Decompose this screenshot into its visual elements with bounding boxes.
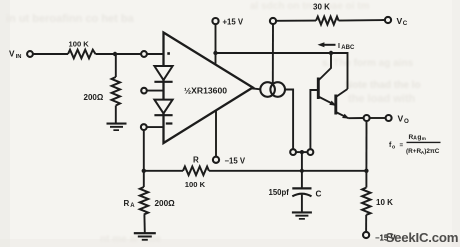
ground G3	[292, 211, 312, 219]
wire cap to ground	[301, 195, 303, 212]
node VIN label	[9, 50, 21, 60]
svg-text:150pf: 150pf	[269, 188, 290, 197]
terminal VIN	[27, 51, 33, 57]
svg-text:C: C	[316, 189, 322, 198]
watermark SeekIC.com	[386, 230, 459, 245]
resistor 10K	[365, 171, 367, 188]
formula fo	[389, 134, 440, 156]
wire op-amp out to mirror	[251, 88, 260, 89]
svg-text:in ut beroafinn co het ba: in ut beroafinn co het ba	[6, 13, 135, 25]
terminal Vo	[386, 115, 392, 121]
svg-text:SeekIC.com: SeekIC.com	[386, 230, 459, 245]
svg-text:IN: IN	[16, 54, 22, 60]
wire IABC pin to R 30K	[276, 20, 316, 22]
svg-text:V: V	[9, 50, 15, 59]
wire 200ohm to ground	[115, 106, 117, 124]
svg-text:s. The form ag ains: s. The form ag ains	[322, 58, 414, 69]
resistor 100K input label	[69, 40, 90, 49]
svg-text:A: A	[130, 203, 135, 209]
node B junction	[142, 169, 146, 173]
wire IABC pin down to mirror	[272, 24, 274, 84]
ground G2	[134, 232, 156, 241]
resistor R label	[185, 155, 206, 189]
minus input mark	[166, 122, 173, 124]
resistor 30K label	[313, 2, 330, 11]
resistor 100K input	[68, 50, 96, 59]
op-amp U1 triangle	[164, 33, 253, 144]
wire RA to ground	[143, 215, 145, 233]
wire diode bias stub	[147, 90, 164, 92]
wire Vo node down to bus	[365, 121, 367, 171]
resistor 200ohm label	[84, 93, 104, 102]
wire +15V down to op-amp V+	[215, 24, 217, 65]
svg-text:I: I	[338, 43, 340, 50]
resistor R 100K feedback	[183, 167, 209, 176]
terminal inverting input	[141, 124, 147, 130]
current IABC arrow	[322, 44, 336, 46]
wire R to node C	[209, 170, 302, 172]
terminal -15V bottom	[363, 232, 369, 238]
svg-text:V: V	[398, 113, 404, 123]
diode D1	[154, 66, 172, 80]
svg-text:100 K: 100 K	[185, 180, 206, 189]
current mirror U1b	[260, 82, 275, 97]
svg-text:(R+R: (R+R	[406, 148, 421, 155]
junction node C bus	[300, 169, 304, 173]
svg-text:the load with: the load with	[348, 93, 416, 105]
capacitor C	[292, 187, 311, 189]
svg-text:ABC: ABC	[341, 45, 355, 51]
wire Q2 emitter to Vo	[348, 117, 363, 119]
svg-text:O: O	[404, 118, 409, 125]
diode D2	[154, 100, 172, 114]
svg-text:C: C	[403, 20, 408, 27]
terminal buffer input pin	[308, 149, 314, 155]
capacitor C label	[269, 188, 322, 198]
terminal +15V	[212, 18, 218, 24]
ground G1	[107, 123, 127, 132]
svg-text:10 K: 10 K	[376, 198, 393, 207]
wire node A down to 200ohm	[115, 54, 117, 77]
junction +15V bus	[213, 51, 217, 55]
svg-text:200Ω: 200Ω	[155, 199, 176, 208]
svg-text:100 K: 100 K	[69, 40, 90, 49]
wire mirror out right and down to buffer pin	[285, 90, 293, 150]
svg-text:nt me al atbe: nt me al atbe	[100, 234, 162, 245]
wire VIN to R 100K	[33, 53, 68, 55]
terminal Vc	[385, 17, 391, 23]
wire R100K to node A	[96, 53, 142, 55]
svg-text:R: R	[193, 155, 199, 164]
svg-text:)2πC: )2πC	[424, 148, 440, 155]
resistor 10K label	[376, 198, 393, 207]
svg-text:=: =	[400, 142, 404, 149]
resistor RA labels	[124, 199, 176, 209]
terminal amp output pin	[290, 149, 296, 155]
op-amp label	[184, 86, 227, 96]
terminal noninverting input	[141, 51, 147, 57]
junction node D	[364, 169, 368, 173]
wire + terminal to op-amp	[147, 53, 164, 55]
wire 10K to -15V terminal	[365, 215, 367, 232]
wire 30K to Vc	[339, 19, 385, 22]
wire - terminal to op-amp	[147, 126, 164, 128]
wire buffer pin up to Q1 base	[310, 90, 318, 149]
svg-text:R: R	[124, 199, 130, 208]
plus input mark	[167, 52, 170, 55]
svg-text:V: V	[397, 16, 403, 26]
resistor 200ohm (input bias)	[112, 77, 120, 106]
resistor 30K	[316, 17, 339, 25]
junction bus / Q1 collector	[329, 51, 333, 55]
transistor Q2	[334, 95, 337, 115]
wire - terminal down to node B	[143, 130, 145, 171]
svg-text:−15 V: −15 V	[225, 157, 246, 166]
wire Vo stub	[370, 117, 386, 119]
transistor Q1	[317, 78, 320, 100]
node A junction	[113, 52, 117, 56]
svg-text:o: o	[392, 144, 395, 150]
svg-text:½XR13600: ½XR13600	[184, 86, 227, 96]
terminal diode bias	[141, 88, 147, 94]
svg-text:al sdch on tne soae oi tm: al sdch on tne soae oi tm	[250, 1, 370, 12]
junction node C	[300, 150, 304, 154]
svg-text:m: m	[422, 137, 426, 142]
terminal Vo node	[364, 115, 370, 121]
terminal IABC pin	[270, 18, 276, 24]
terminal -15V op-amp	[215, 110, 217, 156]
wire node C to node D	[302, 170, 367, 172]
svg-text:+15 V: +15 V	[223, 18, 244, 27]
svg-text:30 K: 30 K	[313, 2, 330, 11]
svg-text:200Ω: 200Ω	[84, 93, 104, 102]
wire +15V bus to darlington collectors	[216, 53, 348, 89]
wire pin to pin	[296, 151, 308, 153]
wire node C down to cap	[301, 154, 303, 188]
wire node B to R feedback	[144, 170, 183, 172]
svg-text:Note thad the lo: Note thad the lo	[345, 80, 421, 91]
resistor RA 200ohm	[143, 171, 145, 187]
